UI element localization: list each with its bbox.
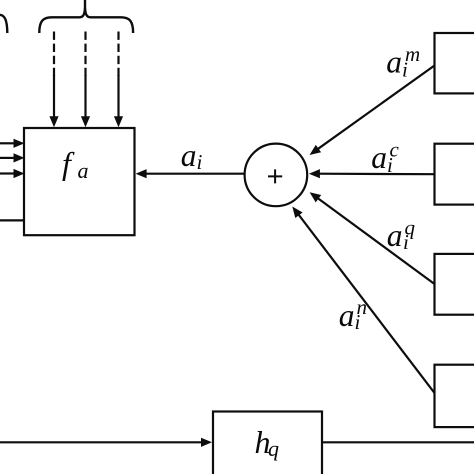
dashed arrow 2 bbox=[84, 32, 86, 77]
box source c bbox=[435, 144, 474, 205]
input arrow 2 shaft bbox=[0, 157, 15, 159]
svg-text:m: m bbox=[405, 42, 420, 66]
arrowhead from box4 bbox=[292, 207, 302, 219]
arrowhead into h_q bbox=[201, 438, 212, 447]
box h_q bbox=[213, 412, 322, 474]
svg-text:a: a bbox=[339, 298, 355, 333]
box source n bbox=[435, 365, 474, 427]
wire box4 to circle bbox=[298, 214, 434, 393]
wire box1 to circle bbox=[317, 66, 434, 150]
svg-text:a: a bbox=[386, 44, 402, 79]
brace over dashed inputs bbox=[39, 8, 133, 33]
svg-text:c: c bbox=[390, 137, 400, 161]
input arrow 3 shaft bbox=[0, 172, 15, 174]
svg-text:a: a bbox=[387, 218, 403, 253]
box source m bbox=[435, 33, 474, 93]
arrowhead from box2 bbox=[309, 169, 320, 178]
plain input line bbox=[0, 219, 24, 221]
box f_a bbox=[24, 128, 135, 235]
wire into h_q bbox=[0, 441, 202, 443]
brace stem bbox=[84, 0, 86, 9]
arrowhead a_i bbox=[136, 169, 147, 178]
wire out of h_q bbox=[322, 441, 474, 443]
arrowhead dashed 3 bbox=[114, 116, 123, 127]
dashed arrow 1 bbox=[53, 32, 55, 77]
arrowhead input 2 bbox=[14, 153, 25, 162]
brace fragment left edge bbox=[0, 15, 7, 33]
dashed arrow 3 bbox=[117, 32, 119, 77]
input arrow 1 shaft bbox=[0, 142, 15, 144]
plus sign bbox=[268, 169, 282, 183]
svg-text:n: n bbox=[357, 295, 368, 319]
svg-text:a: a bbox=[78, 158, 89, 183]
summation circle bbox=[245, 144, 308, 207]
wire box2 to circle bbox=[319, 173, 435, 176]
arrowhead from box3 bbox=[310, 192, 322, 202]
arrowhead from box1 bbox=[310, 145, 322, 155]
svg-text:q: q bbox=[268, 436, 279, 461]
arrowhead dashed 1 bbox=[49, 116, 58, 127]
svg-text:a: a bbox=[371, 140, 387, 175]
arrowhead dashed 2 bbox=[81, 116, 90, 127]
wire box3 to circle bbox=[318, 198, 435, 284]
svg-text:i: i bbox=[197, 150, 203, 174]
svg-text:q: q bbox=[405, 216, 416, 240]
arrowhead input 3 bbox=[14, 169, 25, 178]
box source q bbox=[435, 254, 474, 315]
wire a_i circle to box bbox=[146, 173, 245, 175]
arrowhead input 1 bbox=[14, 139, 25, 148]
svg-text:a: a bbox=[181, 138, 197, 173]
